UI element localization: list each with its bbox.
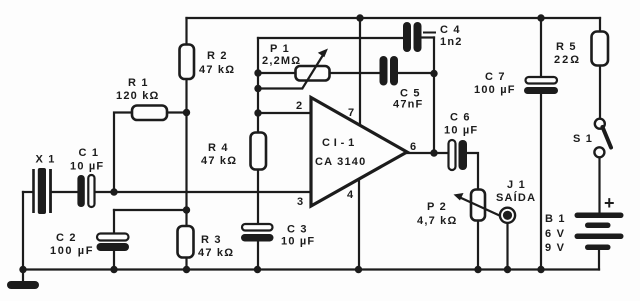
svg-text:R 2: R 2	[207, 50, 228, 62]
node junction top pin7	[356, 14, 363, 21]
svg-text:P 1: P 1	[270, 43, 290, 55]
wire C5 to feedback node	[399, 72, 435, 74]
wire P1 loop left vertical	[257, 38, 259, 133]
node C3 ground	[254, 266, 261, 273]
battery B1	[575, 213, 624, 251]
node P1 wiper junction	[254, 85, 261, 92]
svg-text:CI-1: CI-1	[322, 137, 358, 149]
svg-text:C 2: C 2	[56, 232, 77, 244]
node C4/C5 feedback junction	[430, 70, 437, 77]
svg-text:2,2MΩ: 2,2MΩ	[262, 55, 301, 67]
svg-text:10 µF: 10 µF	[70, 161, 104, 173]
svg-text:3: 3	[297, 196, 303, 208]
svg-text:47 kΩ: 47 kΩ	[201, 155, 237, 167]
svg-text:7: 7	[348, 107, 354, 119]
svg-text:SAÍDA: SAÍDA	[496, 191, 536, 204]
svg-text:1n2: 1n2	[440, 36, 463, 48]
op-amp U1 CI-1	[311, 98, 407, 207]
wire bias line x=187	[185, 79, 187, 226]
svg-text:C 3: C 3	[287, 224, 308, 236]
node feedback/output junction	[430, 149, 437, 156]
resistor R4	[251, 133, 267, 170]
node signal/R1 junction	[110, 188, 117, 195]
svg-text:P 2: P 2	[427, 201, 447, 213]
svg-text:+: +	[604, 193, 615, 213]
node J1 ground	[504, 266, 511, 273]
wire R4 to C3	[257, 170, 259, 225]
wire C1 to op-amp pin 3	[95, 191, 311, 193]
svg-text:S 1: S 1	[573, 133, 593, 145]
wire pin 2 line	[258, 112, 311, 114]
wire battery to bottom rail	[598, 251, 600, 270]
node C7 ground	[537, 266, 544, 273]
node R3 ground	[183, 266, 190, 273]
jack J1	[500, 208, 515, 223]
wire J1 ground drop	[506, 224, 508, 270]
wire C2 bottom	[113, 251, 115, 270]
wire C7 bottom drop	[540, 93, 542, 270]
resistor R1	[132, 106, 167, 121]
wire feedback vertical	[433, 38, 435, 154]
svg-text:C 7: C 7	[485, 71, 506, 83]
svg-text:CA 3140: CA 3140	[315, 156, 366, 168]
wire R1 right	[167, 111, 187, 113]
wire signal left to X1	[23, 191, 32, 193]
node C2 ground	[110, 266, 117, 273]
wire C4 top line	[258, 37, 403, 39]
capacitor C2	[97, 234, 130, 252]
svg-text:2: 2	[296, 100, 302, 112]
svg-text:47 kΩ: 47 kΩ	[198, 247, 234, 259]
svg-text:6 V: 6 V	[545, 228, 565, 240]
svg-text:100 µF: 100 µF	[474, 84, 516, 96]
svg-text:R 1: R 1	[128, 77, 149, 89]
node ground rail left	[19, 266, 26, 273]
svg-text:X 1: X 1	[36, 154, 56, 166]
wire C4 right to corner	[422, 36, 435, 38]
switch S1	[594, 119, 611, 158]
svg-text:B 1: B 1	[545, 213, 566, 225]
wire output pin 6	[407, 152, 449, 154]
svg-text:4: 4	[347, 189, 354, 201]
node C2/bias junction	[183, 206, 190, 213]
wire R2 top drop	[185, 18, 187, 45]
wire C2 branch horizontal	[114, 209, 187, 211]
crystal X1	[34, 168, 51, 214]
resistor R5	[592, 32, 609, 66]
svg-text:C 6: C 6	[450, 112, 471, 124]
wire P1 left lead	[258, 72, 296, 74]
ground	[7, 281, 39, 289]
wire P2 bottom	[477, 221, 479, 270]
capacitor C5	[384, 60, 395, 82]
wire X1 to C1	[53, 191, 78, 193]
wire pin 7 riser	[359, 18, 361, 126]
node P2 ground	[474, 266, 481, 273]
svg-text:R 3: R 3	[201, 234, 222, 246]
node P1 left junction	[254, 69, 261, 76]
wire bottom rail	[23, 268, 599, 270]
svg-text:C 1: C 1	[79, 147, 100, 159]
svg-text:10 µF: 10 µF	[444, 125, 478, 137]
node junction top C7	[537, 14, 544, 21]
wire P1 to C5	[330, 72, 380, 74]
label C4	[423, 32, 436, 34]
potentiometer P1	[296, 49, 330, 90]
wire R1 left drop	[114, 113, 132, 193]
resistor R3	[178, 226, 194, 258]
wire left riser to ground	[22, 192, 24, 281]
wire R3 bottom	[185, 258, 187, 270]
wire C2 top riser	[113, 210, 115, 234]
svg-text:47 kΩ: 47 kΩ	[199, 64, 235, 76]
svg-text:22Ω: 22Ω	[554, 54, 581, 66]
svg-text:J 1: J 1	[507, 179, 526, 191]
svg-text:R 4: R 4	[208, 142, 229, 154]
node pin4 ground	[355, 266, 362, 273]
svg-text:47nF: 47nF	[393, 99, 423, 111]
svg-text:10 µF: 10 µF	[281, 236, 315, 248]
svg-text:9 V: 9 V	[545, 242, 565, 254]
capacitor C1	[77, 175, 94, 207]
wire C3 bottom	[257, 241, 259, 270]
capacitor C7	[524, 77, 558, 94]
wire top rail	[187, 17, 601, 19]
wire R5 top	[599, 18, 601, 32]
svg-text:C 4: C 4	[440, 24, 461, 36]
potentiometer P2	[454, 190, 500, 221]
svg-text:R 5: R 5	[556, 41, 577, 53]
capacitor C4	[407, 26, 418, 48]
resistor R2	[180, 45, 195, 80]
wire C7 top riser	[540, 18, 542, 78]
wire S1 to battery	[598, 158, 600, 214]
wire pin 4 drop	[358, 178, 360, 270]
wire P1 wiper tail	[258, 87, 302, 89]
svg-text:6: 6	[410, 141, 416, 153]
capacitor C6	[449, 140, 468, 170]
node R1/R2 junction	[183, 109, 190, 116]
svg-text:4,7 kΩ: 4,7 kΩ	[417, 215, 458, 227]
wire C6 right	[467, 153, 479, 190]
svg-text:100 µF: 100 µF	[50, 245, 94, 257]
capacitor C3	[241, 224, 274, 242]
svg-text:120 kΩ: 120 kΩ	[116, 90, 160, 102]
wire R5 to S1	[599, 66, 601, 119]
node pin2/R4 junction	[254, 109, 261, 116]
